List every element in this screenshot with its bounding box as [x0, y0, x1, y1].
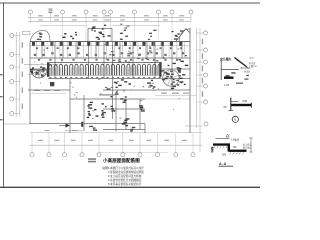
svg-text:1:8坡度: 1:8坡度 [231, 137, 240, 141]
svg-text:300: 300 [222, 153, 227, 156]
svg-text:防水层: 防水层 [249, 61, 256, 65]
svg-text:防水: 防水 [250, 56, 255, 60]
svg-text:小高层屋面配筋图: 小高层屋面配筋图 [103, 157, 140, 164]
svg-text:1:20: 1:20 [224, 83, 230, 87]
svg-text:1.本图尺寸以毫米计标高以米计: 1.本图尺寸以毫米计标高以米计 [108, 166, 144, 170]
svg-text:2.屋面做法详见建筑构造说明表: 2.屋面做法详见建筑构造说明表 [108, 170, 144, 174]
svg-text:道: 道 [211, 149, 214, 153]
svg-text:3.女儿墙压顶配筋详见大样图: 3.女儿墙压顶配筋详见大样图 [108, 174, 142, 178]
svg-text:60: 60 [224, 105, 228, 109]
svg-text:600: 600 [243, 99, 248, 103]
svg-text:女儿墙大: 女儿墙大 [220, 56, 231, 61]
svg-text:B: B [234, 118, 236, 122]
svg-text:A-A: A-A [219, 162, 227, 166]
svg-text:5.未尽事宜参照有关规范执行: 5.未尽事宜参照有关规范执行 [108, 182, 142, 186]
svg-text:4.水落管位置结合立面图确定: 4.水落管位置结合立面图确定 [108, 178, 142, 182]
svg-text:150: 150 [233, 146, 238, 149]
